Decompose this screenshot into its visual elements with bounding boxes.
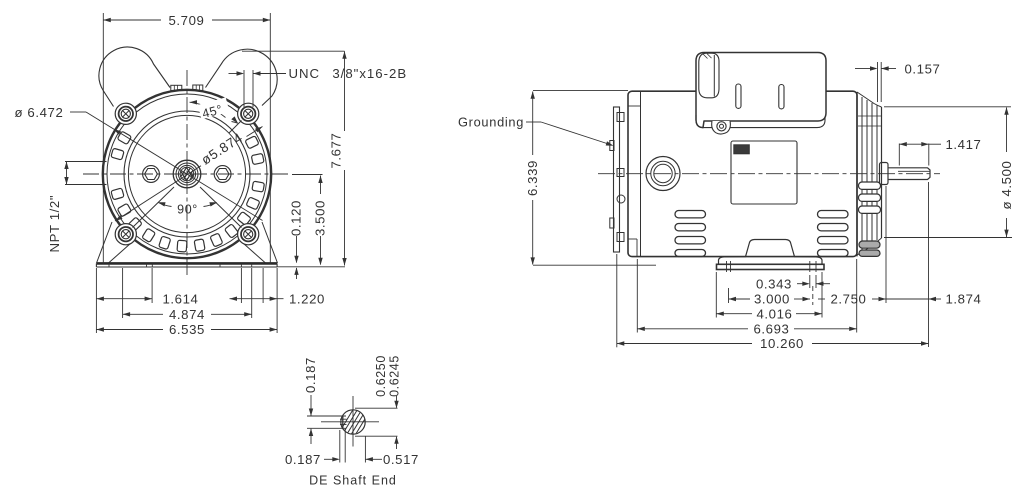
svg-text:7.677: 7.677: [329, 132, 344, 168]
svg-text:0.157: 0.157: [904, 62, 940, 77]
foot side profile: [719, 240, 823, 265]
left lobe of motor housing (rear bump): [99, 47, 170, 106]
dim 6.339 (body height): [525, 91, 656, 266]
dim 4.874 (bolt hole span): [123, 268, 252, 322]
dim 3.000 (slot spacing): [729, 286, 813, 307]
side view rear cap joint line: [628, 92, 641, 256]
svg-text:1.417: 1.417: [945, 137, 981, 152]
right lobe of motor housing (rear bump): [206, 49, 278, 105]
dim 0.517 (flat to edge): [365, 436, 419, 467]
dim 0.157 (rib offset): [855, 62, 941, 103]
radial line to lower-right bolt: [200, 187, 242, 228]
dim dia 4.500 (endcap diameter): [884, 107, 1014, 238]
leader UNC 3/8x16-2B (bolt thread callout): [229, 66, 408, 107]
dim 0.120 (base plate thickness): [289, 200, 304, 279]
dim 1.220 (foot slot right): [230, 268, 326, 307]
svg-text:0.6245: 0.6245: [388, 355, 402, 397]
svg-text:0.343: 0.343: [756, 276, 792, 291]
svg-text:3.500: 3.500: [313, 200, 328, 236]
side view body outline: [628, 91, 857, 256]
dim 1.417 (shaft length): [899, 137, 981, 166]
conduit box screw: [712, 121, 731, 134]
dim 6.693 (frame length): [637, 259, 856, 337]
svg-text:ø 6.472: ø 6.472: [15, 105, 64, 120]
DE endcap louvres: [859, 182, 881, 256]
svg-text:4.874: 4.874: [169, 307, 205, 322]
NPT boss marks: [100, 162, 106, 185]
dim 0.187 (flat width): [285, 429, 345, 467]
mounting bolts (4x): [119, 107, 256, 242]
svg-text:6.535: 6.535: [169, 322, 205, 337]
svg-text:0.187: 0.187: [303, 357, 318, 393]
label Grounding with leader: [458, 115, 614, 146]
svg-text:90°: 90°: [177, 203, 198, 217]
svg-text:DE Shaft End: DE Shaft End: [309, 474, 397, 488]
DE shaft end circle with keyway flat and hatching: [337, 408, 380, 436]
dia 5.874 bolt-circle line with label: [115, 127, 263, 222]
bolt ears on flange: [115, 103, 259, 245]
svg-text:2.750: 2.750: [830, 292, 866, 307]
dim 6.535 (base width): [96, 268, 277, 337]
svg-text:6.339: 6.339: [525, 160, 540, 196]
motor face rim circles: [124, 111, 250, 237]
DE endcap ribs: [857, 92, 882, 256]
shaft: [888, 168, 930, 180]
svg-text:Grounding: Grounding: [458, 115, 524, 130]
radial line to upper-right bolt: [229, 121, 242, 134]
svg-text:1.614: 1.614: [162, 292, 198, 307]
svg-text:6.693: 6.693: [753, 322, 789, 337]
svg-text:4.016: 4.016: [756, 306, 792, 321]
conduit box: [696, 53, 826, 128]
left hex nut: [143, 166, 160, 183]
foot pad: [717, 261, 825, 272]
svg-text:0.6250: 0.6250: [374, 355, 388, 397]
dim 0.343 (foot slot width): [756, 275, 830, 291]
front view horizontal centerline: [83, 173, 290, 175]
shaft collar: [880, 163, 889, 185]
motor flange outer ring: [103, 90, 271, 258]
dim 7.677 (overall height): [242, 51, 347, 265]
label DE Shaft End: [309, 474, 397, 488]
nameplate: [731, 141, 797, 204]
side view centerline: [598, 173, 940, 175]
svg-text:0.517: 0.517: [383, 452, 419, 467]
shaft hub (center): [173, 160, 201, 188]
mounting base plate: [96, 263, 277, 267]
dim 0.6250/0.6245 (shaft diameter): [355, 355, 402, 449]
svg-text:1.220: 1.220: [289, 292, 325, 307]
dim 3.500 (centerline to base): [292, 175, 328, 266]
conduit box slots: [736, 84, 784, 109]
dim 5.709 (top width): [103, 13, 270, 264]
svg-text:5.709: 5.709: [168, 13, 204, 28]
right hex nut: [214, 166, 231, 183]
dim 10.260 (overall length): [617, 254, 929, 351]
svg-text:1.874: 1.874: [945, 292, 981, 307]
body vent louvres: [675, 211, 848, 257]
base gusset lines: [97, 222, 278, 263]
svg-text:3.000: 3.000: [754, 292, 790, 307]
base plate right extension line: [277, 266, 345, 268]
dim NPT 1/2 (conduit hole): [47, 162, 101, 253]
radial line to lower-left bolt: [133, 187, 175, 228]
svg-text:UNC 3/8"x16-2B: UNC 3/8"x16-2B: [289, 66, 408, 81]
shaft detail centerlines: [321, 396, 379, 447]
svg-text:NPT 1/2": NPT 1/2": [47, 195, 62, 253]
dim 0.187 (keyway flat height): [303, 357, 346, 444]
vent slots around flange: [111, 131, 265, 252]
front view vertical centerline: [186, 70, 188, 278]
dim 1.874 (shaft extension): [929, 182, 982, 347]
leader dia 6.472 (flange OD) + diameter line: [15, 105, 263, 221]
grease boss: [646, 157, 680, 191]
dim 90 degrees (lower bolt angle): [158, 202, 217, 216]
svg-text:0.187: 0.187: [285, 452, 321, 467]
svg-text:10.260: 10.260: [760, 336, 804, 351]
svg-text:ø 4.500: ø 4.500: [999, 161, 1014, 210]
terminal nubs on ring top: [171, 85, 203, 91]
rear cover plate: [610, 107, 625, 252]
dim 45 degrees (bolt angle): [190, 97, 239, 123]
svg-text:0.120: 0.120: [289, 200, 304, 236]
dim 1.614 (foot slot): [96, 268, 198, 307]
dim 2.750 (foot to bearing): [818, 186, 929, 307]
dim 4.016 (pad length): [716, 272, 822, 321]
